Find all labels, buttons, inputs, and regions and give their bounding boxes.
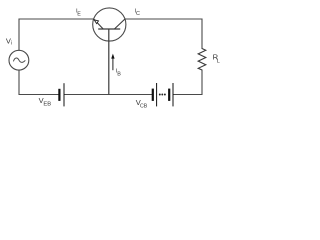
svg-text:EB: EB <box>43 102 51 108</box>
transistor emitter arrowhead <box>94 20 98 24</box>
battery V_EB thin long bar (positive) <box>64 83 65 106</box>
transistor Q1 circle <box>93 8 126 41</box>
transistor base bar <box>98 28 120 30</box>
svg-text:i: i <box>11 41 12 47</box>
svg-text:CB: CB <box>140 104 148 110</box>
wire: bottom middle rail between batteries <box>64 94 151 96</box>
battery V_CB cell 2 thin long bar <box>173 83 174 106</box>
svg-text:C: C <box>136 11 140 17</box>
transistor emitter lead <box>94 19 103 29</box>
wire: left vertical bottom from source to bottom rail <box>19 70 58 94</box>
svg-text:E: E <box>77 11 81 17</box>
wire: left vertical + top-left rail to transistor emitter <box>19 19 94 50</box>
wire: top-right rail from transistor collector to resistor <box>125 19 202 49</box>
battery V_CB dots <box>159 94 161 96</box>
svg-text:B: B <box>117 72 121 78</box>
AC source V_i circle <box>9 50 29 70</box>
svg-text:L: L <box>217 58 220 64</box>
wire: bottom right rail from V_CB to right wire <box>173 70 202 95</box>
resistor R_L zigzag <box>198 49 206 71</box>
transistor base lead wire down to bottom rail <box>108 29 110 95</box>
battery V_EB thick short bar (negative) <box>58 89 60 101</box>
battery V_CB cell 1 thick short bar <box>152 89 154 101</box>
battery V_CB cell 1 thin long bar <box>156 83 157 106</box>
transistor collector lead <box>114 19 124 29</box>
battery V_CB cell 2 thick short bar <box>168 89 170 101</box>
current arrow I_B <box>112 58 114 71</box>
AC source sine wave <box>13 58 25 62</box>
